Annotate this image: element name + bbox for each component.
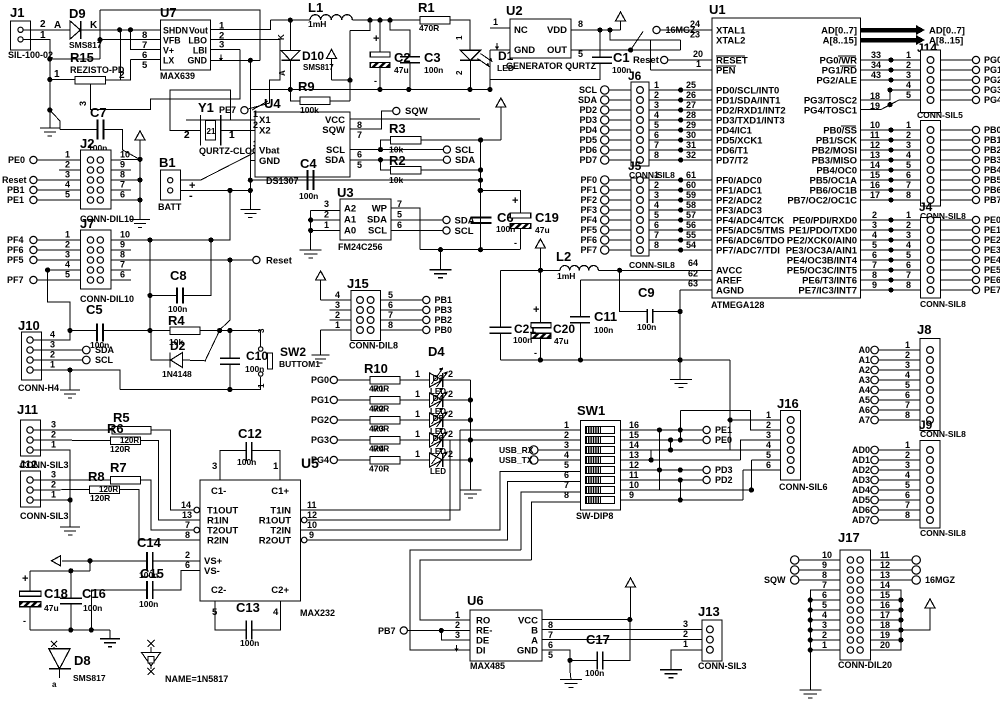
svg-text:FM24C256: FM24C256 bbox=[338, 242, 383, 252]
svg-text:PB4: PB4 bbox=[984, 165, 1000, 175]
svg-text:C14: C14 bbox=[137, 535, 162, 550]
resistor R5 bbox=[112, 410, 151, 434]
svg-text:11: 11 bbox=[307, 500, 317, 510]
wire R8 right to R2IN bbox=[120, 490, 200, 541]
svg-text:SDA: SDA bbox=[325, 155, 345, 166]
svg-text:VDD: VDD bbox=[547, 25, 567, 36]
svg-text:3: 3 bbox=[822, 620, 827, 630]
svg-text:AD4: AD4 bbox=[852, 485, 870, 495]
svg-text:GND: GND bbox=[514, 45, 535, 56]
svg-text:J16: J16 bbox=[777, 396, 799, 411]
svg-text:1mH: 1mH bbox=[557, 271, 575, 281]
svg-text:SDA: SDA bbox=[578, 95, 598, 105]
svg-text:8: 8 bbox=[905, 410, 910, 420]
svg-text:13: 13 bbox=[870, 150, 880, 160]
wire J1 pin1 down to net bbox=[23, 39, 50, 59]
svg-text:100n: 100n bbox=[594, 325, 613, 335]
svg-text:58: 58 bbox=[686, 200, 696, 210]
power arrow U6 bbox=[626, 578, 636, 587]
flag SDA J10 bbox=[83, 346, 91, 354]
capacitor C2 bbox=[370, 33, 410, 86]
wire R7 left bbox=[34, 479, 111, 481]
svg-text:2: 2 bbox=[455, 620, 460, 630]
svg-text:D2: D2 bbox=[170, 339, 186, 353]
jumper to 16MGZ bbox=[631, 32, 643, 51]
mcu U1 ATMEGA128 bbox=[709, 2, 861, 310]
left bus J17 bbox=[810, 590, 840, 690]
wire C18 vertical top bbox=[29, 571, 31, 592]
flag PF5 bbox=[30, 256, 37, 263]
svg-text:100n: 100n bbox=[513, 335, 532, 345]
svg-text:4: 4 bbox=[50, 330, 55, 340]
flag PB7 bbox=[400, 627, 407, 634]
svg-text:4: 4 bbox=[65, 260, 70, 270]
ground symbol J2 bbox=[130, 219, 150, 221]
svg-text:-: - bbox=[514, 238, 517, 248]
svg-text:C19: C19 bbox=[535, 210, 559, 225]
wire AGND vertical bbox=[679, 290, 681, 360]
wire C21 top bbox=[500, 270, 502, 327]
capacitor C9 bbox=[637, 285, 656, 332]
ground symbol leds bbox=[459, 489, 481, 491]
svg-text:1: 1 bbox=[564, 420, 569, 430]
wire C20 bottom bbox=[539, 338, 541, 360]
svg-text:470R: 470R bbox=[419, 23, 439, 33]
svg-text:1: 1 bbox=[51, 440, 56, 450]
wires J5 to U1 bbox=[649, 179, 712, 181]
svg-text:C2+: C2+ bbox=[271, 585, 289, 596]
wire U3 SDA bbox=[391, 219, 443, 221]
svg-text:DI: DI bbox=[476, 646, 486, 657]
flag PB1 J2 bbox=[30, 186, 37, 193]
svg-text:D4: D4 bbox=[433, 393, 444, 403]
svg-text:3: 3 bbox=[654, 100, 659, 110]
wire PG4 jumper bbox=[861, 109, 881, 111]
svg-text:V+: V+ bbox=[163, 46, 174, 56]
svg-text:L2: L2 bbox=[556, 249, 571, 264]
connector J2 CONN-DIL10 bbox=[65, 136, 134, 224]
svg-text:R2OUT: R2OUT bbox=[259, 536, 291, 547]
flag SCL J10 bbox=[83, 356, 91, 364]
svg-text:CONN-SIL8: CONN-SIL8 bbox=[629, 260, 675, 270]
svg-text:PF4: PF4 bbox=[7, 235, 24, 245]
svg-text:C2-: C2- bbox=[211, 585, 226, 596]
wires J7 left bbox=[37, 239, 81, 241]
flag PG1 led row bbox=[330, 396, 337, 403]
gnd rail y=360 bbox=[501, 359, 731, 361]
wires PB rows bbox=[861, 129, 921, 131]
gnd vertical x=250 bbox=[249, 60, 251, 209]
svg-text:57: 57 bbox=[686, 210, 696, 220]
svg-text:4: 4 bbox=[654, 110, 659, 120]
wire VFB net vertical x=100 bbox=[99, 10, 101, 59]
svg-text:7: 7 bbox=[654, 230, 659, 240]
svg-text:R9: R9 bbox=[298, 79, 315, 94]
svg-text:2: 2 bbox=[335, 310, 340, 320]
capacitor C19 bbox=[510, 195, 559, 248]
svg-text:LED: LED bbox=[430, 467, 446, 476]
svg-text:1: 1 bbox=[905, 440, 910, 450]
svg-text:6: 6 bbox=[120, 190, 125, 200]
svg-text:ATMEGA128: ATMEGA128 bbox=[711, 300, 764, 310]
capacitor C11 bbox=[570, 309, 617, 335]
svg-text:100k: 100k bbox=[300, 105, 319, 115]
svg-text:5: 5 bbox=[905, 380, 910, 390]
wire J16.2 route bbox=[680, 411, 780, 430]
svg-text:8: 8 bbox=[906, 190, 911, 200]
wire U4 VCC long bbox=[350, 118, 480, 120]
svg-text:PB3: PB3 bbox=[984, 155, 1000, 165]
svg-text:2: 2 bbox=[905, 350, 910, 360]
svg-text:17: 17 bbox=[870, 190, 880, 200]
svg-text:10: 10 bbox=[120, 230, 130, 240]
wire J7 pin8 Reset net bbox=[111, 259, 230, 261]
svg-text:CONN-DIL8: CONN-DIL8 bbox=[349, 341, 398, 351]
svg-text:62: 62 bbox=[688, 269, 698, 279]
svg-text:7: 7 bbox=[906, 180, 911, 190]
svg-text:1: 1 bbox=[65, 150, 70, 160]
wire U4 SQW to flag bbox=[350, 111, 393, 129]
svg-text:5: 5 bbox=[905, 480, 910, 490]
svg-text:3: 3 bbox=[906, 230, 911, 240]
connector J6 CONN-SIL8 bbox=[628, 69, 675, 180]
wire VDD to PEN bbox=[610, 30, 680, 40]
connector J7 CONN-DIL10 bbox=[65, 216, 134, 304]
svg-text:1mH: 1mH bbox=[308, 19, 326, 29]
svg-text:4: 4 bbox=[905, 370, 910, 380]
svg-text:4: 4 bbox=[766, 440, 771, 450]
wire row14 to J16.4 bbox=[621, 449, 781, 451]
wire U4 SCL row bbox=[350, 149, 443, 151]
flags PB right bbox=[941, 129, 973, 131]
svg-text:47u: 47u bbox=[44, 603, 59, 613]
flags AD0-AD7 bbox=[871, 446, 879, 454]
svg-text:C9: C9 bbox=[638, 285, 655, 300]
wire C17 right bbox=[603, 620, 629, 661]
svg-text:5: 5 bbox=[65, 270, 70, 280]
wire C16 top bbox=[70, 571, 72, 598]
svg-text:5: 5 bbox=[388, 290, 393, 300]
power arrow J15 bbox=[316, 271, 326, 280]
ground symbol U3 bbox=[300, 249, 322, 251]
svg-text:10: 10 bbox=[629, 480, 639, 490]
wire J16.5 route bbox=[750, 460, 752, 490]
svg-text:6: 6 bbox=[388, 300, 393, 310]
svg-text:6: 6 bbox=[822, 590, 827, 600]
resistor R2 bbox=[389, 153, 421, 185]
svg-text:3: 3 bbox=[766, 430, 771, 440]
svg-text:1: 1 bbox=[766, 410, 771, 420]
svg-text:6: 6 bbox=[120, 270, 125, 280]
svg-text:16MGZ: 16MGZ bbox=[925, 575, 956, 585]
svg-text:AD0: AD0 bbox=[852, 445, 870, 455]
svg-text:Reset: Reset bbox=[633, 55, 660, 66]
svg-text:4: 4 bbox=[906, 240, 911, 250]
wire C9 right bbox=[653, 311, 680, 313]
svg-text:2: 2 bbox=[906, 220, 911, 230]
svg-text:1: 1 bbox=[324, 220, 329, 230]
svg-text:SQW: SQW bbox=[405, 106, 428, 117]
svg-text:PB0: PB0 bbox=[984, 125, 1000, 135]
gnd vertical J2 bbox=[139, 159, 141, 219]
svg-text:+: + bbox=[512, 195, 518, 207]
svg-text:PF6: PF6 bbox=[580, 235, 597, 245]
svg-text:PB7/OC2/OC1C: PB7/OC2/OC1C bbox=[787, 196, 857, 207]
wire V+ from K dot bbox=[130, 30, 160, 50]
svg-text:5: 5 bbox=[822, 600, 827, 610]
svg-text:9: 9 bbox=[872, 280, 877, 290]
wires J7 right bbox=[111, 190, 230, 240]
flag PG3 led row bbox=[330, 436, 337, 443]
svg-text:4: 4 bbox=[872, 230, 877, 240]
capacitor C6 bbox=[471, 210, 516, 234]
svg-text:1: 1 bbox=[335, 320, 340, 330]
ground symbol J17 bbox=[799, 689, 821, 691]
svg-text:PF6: PF6 bbox=[7, 245, 24, 255]
resistor 470R row 3 bbox=[338, 416, 401, 433]
wire R7 right to T2OUT bbox=[141, 480, 200, 530]
svg-text:SCL: SCL bbox=[368, 226, 387, 237]
svg-text:1: 1 bbox=[415, 429, 420, 439]
svg-text:AGND: AGND bbox=[716, 286, 744, 297]
svg-text:6: 6 bbox=[905, 490, 910, 500]
svg-text:BUTTOM1: BUTTOM1 bbox=[279, 359, 320, 369]
junction dots on K net bbox=[117, 27, 122, 32]
svg-text:PG3: PG3 bbox=[984, 85, 1000, 95]
svg-text:PG0: PG0 bbox=[984, 55, 1000, 65]
svg-text:11: 11 bbox=[880, 550, 890, 560]
svg-text:100n: 100n bbox=[637, 322, 656, 332]
svg-text:R4: R4 bbox=[373, 444, 384, 454]
connector J13 CONN-SIL3 bbox=[683, 604, 747, 671]
led D3 bbox=[400, 367, 470, 396]
svg-text:2: 2 bbox=[905, 450, 910, 460]
svg-text:12: 12 bbox=[880, 560, 890, 570]
svg-text:PE0: PE0 bbox=[715, 435, 732, 445]
svg-text:6: 6 bbox=[564, 470, 569, 480]
wires PE rows bbox=[861, 219, 921, 221]
svg-text:PB1: PB1 bbox=[435, 295, 453, 305]
svg-text:PD5: PD5 bbox=[579, 135, 597, 145]
svg-text:C20: C20 bbox=[553, 322, 575, 336]
resistor R4 bbox=[168, 313, 200, 347]
svg-text:J2: J2 bbox=[80, 136, 94, 151]
svg-text:GND: GND bbox=[517, 646, 538, 657]
svg-text:PD3: PD3 bbox=[715, 465, 733, 475]
wire J7 pin4 route to C5 bbox=[48, 270, 70, 331]
svg-text:4: 4 bbox=[905, 470, 910, 480]
svg-text:A7: A7 bbox=[858, 415, 870, 425]
svg-text:OUT: OUT bbox=[547, 45, 567, 56]
wire AGND bbox=[680, 289, 712, 291]
svg-text:PF5: PF5 bbox=[580, 225, 597, 235]
svg-text:SMS817: SMS817 bbox=[69, 40, 102, 50]
wires U3 address pins bbox=[311, 209, 340, 211]
svg-text:USB_RX: USB_RX bbox=[499, 445, 534, 455]
connector J10 CONN-H4 bbox=[18, 318, 59, 393]
wire C5 left bbox=[70, 330, 97, 332]
svg-text:PB1: PB1 bbox=[7, 185, 25, 195]
svg-text:8: 8 bbox=[564, 490, 569, 500]
svg-text:SMS817: SMS817 bbox=[303, 63, 334, 72]
wire C1 top bbox=[599, 30, 601, 57]
svg-text:LX: LX bbox=[163, 56, 174, 66]
svg-text:6: 6 bbox=[766, 460, 771, 470]
diagonal jumper at x=50 bbox=[50, 110, 60, 130]
svg-text:1: 1 bbox=[654, 80, 659, 90]
rtc U4 DS1307 bbox=[252, 96, 362, 186]
svg-text:3: 3 bbox=[51, 420, 56, 430]
wire R2OUT long bbox=[307, 482, 581, 541]
svg-text:D6: D6 bbox=[433, 433, 444, 443]
svg-text:A1: A1 bbox=[858, 355, 870, 365]
svg-text:PF7: PF7 bbox=[7, 275, 24, 285]
resistor R8 bbox=[88, 469, 120, 503]
svg-text:1: 1 bbox=[906, 120, 911, 130]
wire PE1 vertical bbox=[679, 411, 681, 440]
svg-text:120R: 120R bbox=[110, 444, 130, 454]
svg-text:3: 3 bbox=[683, 619, 688, 629]
svg-text:8: 8 bbox=[822, 570, 827, 580]
svg-text:D8: D8 bbox=[74, 653, 91, 668]
svg-text:21: 21 bbox=[207, 127, 216, 136]
svg-text:3: 3 bbox=[906, 70, 911, 80]
svg-text:24: 24 bbox=[690, 19, 700, 29]
wire R9 left bbox=[290, 90, 300, 101]
svg-text:2: 2 bbox=[448, 429, 453, 439]
svg-text:16: 16 bbox=[880, 600, 890, 610]
svg-text:10: 10 bbox=[870, 120, 880, 130]
flag PE0 sw bbox=[703, 436, 710, 443]
svg-text:10: 10 bbox=[120, 150, 130, 160]
svg-text:1: 1 bbox=[65, 230, 70, 240]
resistor 470R row 5 bbox=[338, 456, 401, 473]
wire C2 top bbox=[379, 20, 381, 52]
svg-text:5: 5 bbox=[142, 60, 148, 71]
svg-text:5: 5 bbox=[906, 250, 911, 260]
oscillator U2 GENERATOR QURTZ bbox=[493, 3, 597, 71]
svg-text:U1: U1 bbox=[709, 2, 726, 17]
svg-text:2: 2 bbox=[50, 350, 55, 360]
svg-text:J10: J10 bbox=[18, 318, 40, 333]
capacitor C4 bbox=[299, 156, 318, 201]
svg-text:SW-DIP8: SW-DIP8 bbox=[576, 511, 613, 521]
svg-text:+: + bbox=[533, 304, 539, 316]
svg-text:23: 23 bbox=[690, 30, 700, 40]
wire RE DE tie bbox=[441, 631, 470, 641]
svg-text:C16: C16 bbox=[82, 586, 106, 601]
svg-text:6: 6 bbox=[548, 640, 553, 650]
svg-text:AD6: AD6 bbox=[852, 505, 870, 515]
wire R5 right to T1OUT bbox=[151, 430, 199, 510]
svg-text:5: 5 bbox=[397, 210, 402, 220]
svg-text:MAX485: MAX485 bbox=[470, 661, 505, 671]
svg-text:4: 4 bbox=[654, 200, 659, 210]
svg-text:4: 4 bbox=[65, 180, 70, 190]
connector J1 bbox=[8, 5, 61, 60]
wire J16.5 row bbox=[751, 459, 780, 461]
svg-text:C17: C17 bbox=[586, 632, 610, 647]
wire Reset jumper down bbox=[220, 260, 230, 330]
resistor R9 bbox=[298, 79, 330, 115]
svg-text:11: 11 bbox=[629, 470, 639, 480]
diode D9 bbox=[69, 6, 102, 50]
svg-text:5: 5 bbox=[548, 650, 553, 660]
svg-text:2: 2 bbox=[51, 430, 56, 440]
wires C13 bbox=[215, 601, 246, 630]
svg-text:R7: R7 bbox=[110, 460, 127, 475]
svg-text:6: 6 bbox=[906, 170, 911, 180]
svg-text:D9: D9 bbox=[69, 6, 86, 21]
wire C18 top net bbox=[30, 570, 90, 572]
svg-text:8: 8 bbox=[872, 270, 877, 280]
flag USB_TX bbox=[530, 456, 538, 464]
flag SDA U3 bbox=[443, 216, 450, 223]
svg-text:REZISTO-PD: REZISTO-PD bbox=[70, 65, 125, 75]
flag PF7 bbox=[30, 276, 37, 283]
wire U3 WP bbox=[391, 208, 420, 250]
wire PE0 tie bbox=[670, 440, 672, 450]
wires J6 to U1 bbox=[649, 89, 712, 91]
flags PE right bbox=[941, 219, 973, 221]
svg-text:32: 32 bbox=[686, 150, 696, 160]
svg-text:9: 9 bbox=[629, 490, 634, 500]
flag 16MGZ bbox=[653, 26, 660, 33]
ground symbol under U4 area bbox=[240, 209, 260, 211]
svg-text:8: 8 bbox=[185, 530, 190, 540]
svg-text:a: a bbox=[52, 680, 57, 689]
svg-text:1: 1 bbox=[905, 340, 910, 350]
svg-text:47u: 47u bbox=[535, 225, 550, 235]
ground symbol J15 bbox=[312, 354, 330, 356]
svg-text:7: 7 bbox=[654, 140, 659, 150]
svg-text:8: 8 bbox=[388, 320, 393, 330]
svg-text:16: 16 bbox=[629, 420, 639, 430]
wire C8 left bbox=[150, 295, 177, 297]
svg-text:PD7: PD7 bbox=[579, 155, 597, 165]
svg-text:C12: C12 bbox=[238, 426, 262, 441]
svg-text:C1: C1 bbox=[613, 50, 630, 65]
svg-text:7: 7 bbox=[548, 630, 553, 640]
svg-text:L1: L1 bbox=[308, 0, 323, 15]
svg-text:47u: 47u bbox=[394, 65, 409, 75]
inductor L2 bbox=[556, 249, 598, 281]
vertical x=150 to C5 net bbox=[149, 240, 151, 331]
svg-text:NC: NC bbox=[514, 25, 528, 36]
flag PE1 sw bbox=[703, 426, 710, 433]
pushbutton SW2 BUTTOM1 bbox=[257, 328, 320, 388]
svg-text:1: 1 bbox=[415, 449, 420, 459]
wire R4 right bbox=[200, 331, 261, 348]
wire D1 gnd net at U2 bbox=[489, 50, 491, 89]
inductor L1 bbox=[308, 0, 352, 29]
svg-text:30: 30 bbox=[686, 130, 696, 140]
svg-text:6: 6 bbox=[654, 220, 659, 230]
capacitor C1 bbox=[592, 50, 631, 75]
svg-text:1: 1 bbox=[455, 610, 460, 620]
svg-text:C1+: C1+ bbox=[271, 486, 289, 497]
svg-text:CONN-SIL3: CONN-SIL3 bbox=[698, 661, 747, 671]
power arrow R3 bbox=[496, 98, 506, 107]
svg-text:PE4: PE4 bbox=[984, 255, 1000, 265]
svg-text:13: 13 bbox=[182, 510, 192, 520]
wire C11 bottom bbox=[580, 323, 582, 360]
svg-text:3: 3 bbox=[564, 440, 569, 450]
wire row13 to J16 area bbox=[621, 459, 741, 461]
svg-text:60: 60 bbox=[686, 180, 696, 190]
resistor R7 bbox=[110, 460, 141, 484]
flag Reset J2 bbox=[30, 176, 37, 183]
